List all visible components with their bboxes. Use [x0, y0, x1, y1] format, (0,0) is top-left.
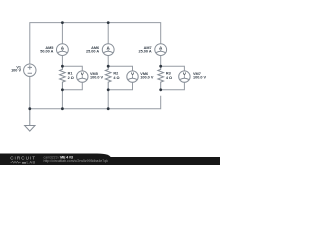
- node branch3 upper: [159, 65, 162, 68]
- node dots: [28, 21, 162, 110]
- svg-text:100.0 V: 100.0 V: [140, 76, 154, 80]
- wire branch2 voltmeter loop: [108, 66, 132, 71]
- ammeter AM5: [57, 44, 69, 56]
- node branch2 upper: [107, 65, 110, 68]
- svg-text:http://circuitlab.com/c/2rw5z9: http://circuitlab.com/c/2rw5z995dba4e7qk: [44, 159, 109, 163]
- node branch2 lower: [107, 88, 110, 91]
- node branch1 lower: [61, 88, 64, 91]
- node bottom branch2: [107, 107, 110, 110]
- node branch3 lower: [159, 88, 162, 91]
- ground: [25, 109, 35, 131]
- logo resistor zigzag: [11, 161, 21, 163]
- wire branch1 node to bottom: [61, 90, 63, 109]
- svg-text:4 Ω: 4 Ω: [166, 76, 172, 80]
- svg-text:100.0 V: 100.0 V: [90, 76, 104, 80]
- svg-text:2 Ω: 2 Ω: [68, 76, 74, 80]
- wire branch2 ammeter to node: [107, 23, 109, 44]
- ammeter AM7: [155, 44, 167, 56]
- svg-text:25.00 A: 25.00 A: [139, 50, 152, 54]
- footer badge: [0, 154, 111, 166]
- wire top rail: [30, 23, 161, 65]
- svg-text:50.00 A: 50.00 A: [40, 50, 53, 54]
- svg-text:100 V: 100 V: [11, 69, 21, 73]
- svg-text:100.0 V: 100.0 V: [193, 76, 207, 80]
- wire branch1 ammeter to node: [61, 23, 63, 44]
- ammeter AM6: [102, 44, 114, 56]
- footer watermark bar: [0, 157, 220, 165]
- wire branch2 node to bottom: [107, 90, 109, 109]
- wire left rail bottom: [29, 76, 31, 108]
- wire branch3 voltmeter loop: [161, 66, 185, 71]
- svg-text:25.00 A: 25.00 A: [86, 50, 99, 54]
- voltmeter VM6: [127, 71, 138, 82]
- svg-text:4 Ω: 4 Ω: [113, 76, 119, 80]
- svg-text:R3: R3: [166, 72, 171, 76]
- svg-text:R2: R2: [113, 72, 118, 76]
- svg-text:R1: R1: [68, 72, 73, 76]
- voltage source V1: [24, 64, 36, 76]
- labels: [11, 45, 206, 80]
- voltmeter VM7: [179, 71, 190, 82]
- svg-text:▬LAB: ▬LAB: [22, 160, 36, 165]
- resistor R1: [60, 66, 66, 90]
- wire branch1 voltmeter loop: [62, 66, 82, 71]
- wire branch3 ammeter to node: [160, 56, 162, 67]
- node bottom branch1: [61, 107, 64, 110]
- wire bottom rail: [30, 96, 161, 109]
- node bottom V1: [28, 107, 31, 110]
- resistor R3: [158, 66, 164, 90]
- voltmeter VM5: [77, 71, 88, 82]
- node top branch2: [107, 21, 110, 24]
- node top branch1: [61, 21, 64, 24]
- node branch1 upper: [61, 65, 64, 68]
- resistor R2: [105, 66, 111, 90]
